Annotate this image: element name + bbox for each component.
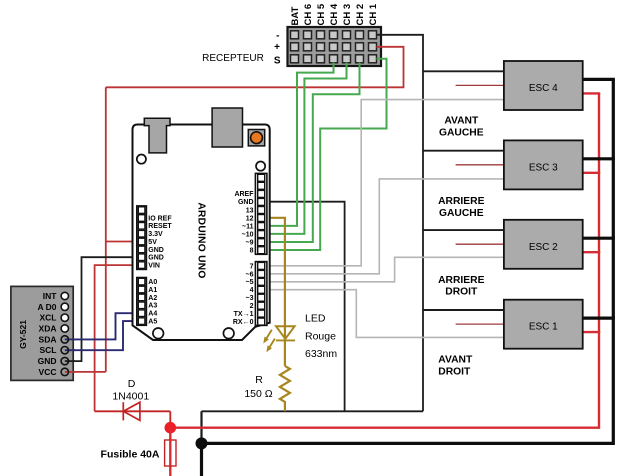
wire Arduino GND right pin down to GND line xyxy=(263,202,345,412)
labels right header bottom xyxy=(233,263,254,326)
svg-text:-: - xyxy=(276,30,279,41)
wire CH1 S to pin 8 green xyxy=(263,59,387,250)
wire SCL to A5 blue xyxy=(65,321,140,350)
label Fusible 40A xyxy=(101,448,160,460)
svg-text:D: D xyxy=(128,378,136,390)
svg-text:AVANT: AVANT xyxy=(438,354,473,365)
svg-text:INT: INT xyxy=(43,291,58,301)
svg-text:IO REF: IO REF xyxy=(148,215,172,222)
wire CH3 S to pin 10 green xyxy=(263,63,347,234)
svg-text:CH 4: CH 4 xyxy=(329,3,340,25)
arduino right header top (digital 8-13) xyxy=(255,173,267,254)
node red junction xyxy=(165,422,177,434)
svg-text:+: + xyxy=(274,42,280,53)
svg-text:GND: GND xyxy=(148,247,164,254)
svg-text:3.3V: 3.3V xyxy=(148,231,163,238)
label receiver columns BAT CH6..CH1 xyxy=(290,3,379,25)
svg-text:DROIT: DROIT xyxy=(438,367,471,378)
labels right header top xyxy=(234,191,254,254)
svg-text:~5: ~5 xyxy=(246,279,254,286)
svg-text:GND: GND xyxy=(148,255,164,262)
svg-text:GND: GND xyxy=(238,199,254,206)
diode D 1N4001 xyxy=(95,402,171,428)
labels GY-521 pins xyxy=(37,291,57,377)
svg-text:13: 13 xyxy=(246,207,254,214)
wire gray pin 7 to ESC4 xyxy=(263,100,504,266)
svg-text:GY-521: GY-521 xyxy=(18,320,28,349)
battery black bus thick xyxy=(202,79,614,476)
ESC 1 xyxy=(423,300,615,349)
receiver RECEPTEUR block xyxy=(288,27,382,66)
label receiver rows - + S xyxy=(274,30,281,66)
svg-text:ARRIERE: ARRIERE xyxy=(438,275,484,286)
wire receiver minus to ESC black bus xyxy=(377,35,424,412)
svg-text:CH 2: CH 2 xyxy=(355,4,366,26)
svg-text:ARRIERE: ARRIERE xyxy=(438,196,484,207)
svg-text:A3: A3 xyxy=(148,303,157,310)
svg-text:VIN: VIN xyxy=(148,263,160,270)
resistor R 150 ohm xyxy=(280,366,290,411)
wire receiver plus to 5V rail xyxy=(106,47,404,372)
label AVANT GAUCHE xyxy=(439,116,484,139)
wire gray pin 4 to ESC1 xyxy=(263,290,504,338)
arduino left header top (power) xyxy=(137,206,147,270)
LED D1 red 633nm xyxy=(263,326,295,366)
svg-text:Fusible 40A: Fusible 40A xyxy=(101,448,160,460)
battery red bus thick xyxy=(170,93,599,427)
svg-text:XDA: XDA xyxy=(39,324,57,334)
label ARRIERE DROIT xyxy=(438,275,484,298)
svg-text:~6: ~6 xyxy=(246,271,254,278)
ESC 3 xyxy=(423,140,615,189)
svg-text:5V: 5V xyxy=(148,239,157,246)
svg-text:~3: ~3 xyxy=(246,295,254,302)
svg-text:SDA: SDA xyxy=(39,334,57,344)
svg-text:A5: A5 xyxy=(148,319,157,326)
receiver pin squares xyxy=(291,31,377,63)
wire gray pin 5 to ESC2 xyxy=(263,257,504,282)
label LED Rouge 633nm xyxy=(305,312,337,360)
svg-text:RX←0: RX←0 xyxy=(233,319,254,326)
arduino power jack xyxy=(212,108,242,147)
svg-text:XCL: XCL xyxy=(40,313,57,323)
svg-text:A0: A0 xyxy=(148,279,157,286)
fuse Fusible 40A xyxy=(165,428,176,476)
svg-text:ESC 4: ESC 4 xyxy=(529,83,558,94)
svg-text:LED: LED xyxy=(305,312,326,324)
GY-521 pin circles xyxy=(61,292,68,375)
arduino left header bottom (analog) xyxy=(137,278,147,326)
svg-text:GAUCHE: GAUCHE xyxy=(439,208,484,219)
GY-521 module xyxy=(11,286,73,380)
svg-text:BAT: BAT xyxy=(290,6,301,25)
svg-text:~11: ~11 xyxy=(242,223,254,230)
wire GY-521 VCC to 5V rail xyxy=(65,371,106,373)
svg-text:Rouge: Rouge xyxy=(305,331,336,343)
arduino reset button xyxy=(248,130,264,146)
svg-text:DROIT: DROIT xyxy=(445,287,478,298)
svg-text:ESC 1: ESC 1 xyxy=(529,322,558,333)
arduino right header bottom (digital 0-7) xyxy=(255,262,267,326)
svg-text:A D0: A D0 xyxy=(37,302,56,312)
svg-text:633nm: 633nm xyxy=(305,348,337,360)
svg-text:RESET: RESET xyxy=(148,223,172,230)
GY-521 pin wire stubs xyxy=(65,339,75,372)
svg-text:A1: A1 xyxy=(148,287,157,294)
svg-text:S: S xyxy=(274,56,281,67)
svg-text:12: 12 xyxy=(246,215,254,222)
arduino mounting holes xyxy=(137,155,265,339)
arduino USB connector xyxy=(144,118,170,153)
svg-text:SCL: SCL xyxy=(40,345,57,355)
wire gray pin 6 to ESC3 xyxy=(263,179,504,274)
labels left header bottom xyxy=(148,279,157,326)
svg-text:4: 4 xyxy=(250,287,254,294)
svg-text:~10: ~10 xyxy=(242,231,254,238)
ESC 2 xyxy=(423,220,615,269)
svg-text:A4: A4 xyxy=(148,311,157,318)
label R 150 ohm xyxy=(244,374,272,400)
svg-text:7: 7 xyxy=(250,263,254,270)
svg-text:ESC 2: ESC 2 xyxy=(529,242,558,253)
wire olive pin 12 to LED xyxy=(263,218,285,341)
svg-text:CH 5: CH 5 xyxy=(316,3,327,25)
svg-text:2: 2 xyxy=(250,303,254,310)
label ARDUINO UNO xyxy=(196,202,207,278)
svg-text:RECEPTEUR: RECEPTEUR xyxy=(202,53,264,64)
label RECEPTEUR xyxy=(202,53,264,64)
svg-text:GND: GND xyxy=(38,356,57,366)
label D 1N4001 xyxy=(112,378,149,403)
svg-text:CH 6: CH 6 xyxy=(303,4,314,26)
wire CH2 S to pin 9 green xyxy=(263,63,360,243)
svg-text:8: 8 xyxy=(250,248,254,255)
svg-text:~9: ~9 xyxy=(246,240,254,247)
svg-text:AREF: AREF xyxy=(234,191,254,198)
svg-text:AVANT: AVANT xyxy=(444,116,479,127)
labels left header top xyxy=(148,215,172,269)
wire GY-521 GND to Arduino GND xyxy=(65,257,140,361)
svg-text:1N4001: 1N4001 xyxy=(112,391,149,403)
wire battery plus to VIN xyxy=(95,265,140,411)
arduino UNO board outline xyxy=(133,125,270,341)
svg-text:GAUCHE: GAUCHE xyxy=(439,128,484,139)
svg-text:ESC 3: ESC 3 xyxy=(529,162,558,173)
svg-text:ARDUINO UNO: ARDUINO UNO xyxy=(196,202,207,278)
svg-text:150 Ω: 150 Ω xyxy=(244,388,272,400)
svg-text:VCC: VCC xyxy=(39,367,57,377)
svg-text:TX→1: TX→1 xyxy=(234,311,254,318)
wire black GND horizontal y411 xyxy=(202,411,424,443)
wire SDA to A4 blue xyxy=(65,313,140,339)
svg-text:CH 3: CH 3 xyxy=(342,4,353,26)
svg-text:CH 1: CH 1 xyxy=(368,3,379,25)
node black junction xyxy=(196,437,208,449)
wire CH4 S to pin 11 green xyxy=(263,63,334,226)
label ARRIERE GAUCHE xyxy=(438,196,484,219)
svg-text:A2: A2 xyxy=(148,295,157,302)
svg-text:R: R xyxy=(255,374,263,386)
ESC 4 xyxy=(423,61,615,110)
label AVANT DROIT xyxy=(438,354,473,377)
